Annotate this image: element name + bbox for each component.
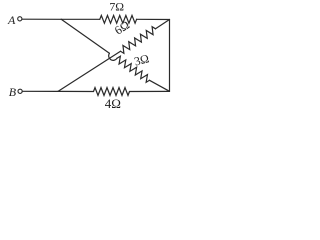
wire top right — [137, 18, 170, 20]
wire bottom from B to junction — [22, 90, 58, 92]
wire diagonal from A junction to hop — [61, 19, 109, 53]
svg-text:4Ω: 4Ω — [105, 96, 121, 111]
svg-text:A: A — [7, 13, 16, 27]
terminal A — [18, 17, 22, 21]
svg-text:7Ω: 7Ω — [109, 0, 124, 13]
wire diagonal from B junction to resistor 6 — [58, 51, 121, 91]
wire bottom right — [130, 90, 170, 92]
wire right vertical — [169, 20, 171, 92]
svg-text:6Ω: 6Ω — [112, 18, 132, 38]
wire top from junction to resistor 7 — [61, 18, 100, 20]
svg-text:3Ω: 3Ω — [133, 51, 151, 68]
svg-text:B: B — [9, 85, 17, 99]
wire diagonal from resistor 3 to bottom right corner — [150, 80, 170, 91]
terminal B — [18, 89, 22, 93]
wire top from A to junction — [22, 18, 61, 20]
resistor R3 3ohm — [117, 56, 150, 82]
resistor R1 7ohm — [100, 15, 137, 23]
resistor R4 4ohm — [94, 88, 130, 96]
wire hop over crossing — [109, 53, 117, 60]
wire bottom from junction to resistor 4 — [58, 90, 94, 92]
resistor R2 6ohm — [121, 27, 156, 54]
wire diagonal from resistor 6 to top right corner — [156, 20, 170, 29]
